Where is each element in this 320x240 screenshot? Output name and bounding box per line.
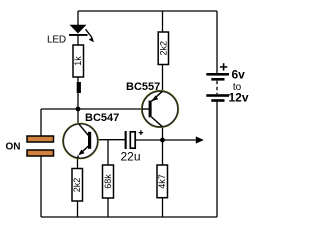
svg-text:LED: LED: [47, 35, 66, 46]
svg-text:6v: 6v: [232, 68, 246, 82]
svg-text:4k7: 4k7: [157, 174, 167, 189]
svg-text:ON: ON: [6, 142, 21, 153]
svg-text:BC557: BC557: [126, 81, 160, 93]
svg-text:12v: 12v: [229, 90, 249, 104]
svg-text:68k: 68k: [103, 174, 113, 189]
svg-text:1k: 1k: [73, 56, 83, 66]
svg-text:BC547: BC547: [85, 112, 119, 124]
svg-text:2k2: 2k2: [158, 41, 168, 56]
svg-text:2k2: 2k2: [72, 178, 82, 193]
svg-text:22u: 22u: [121, 150, 141, 164]
